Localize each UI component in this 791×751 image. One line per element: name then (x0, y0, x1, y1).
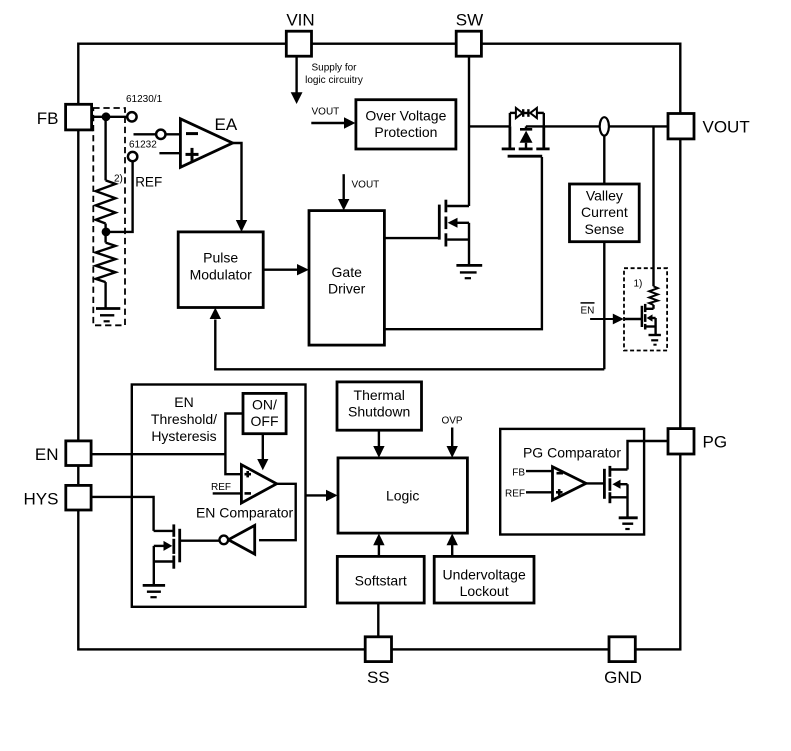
svg-text:Softstart: Softstart (355, 572, 407, 588)
ground PG FET (619, 518, 638, 529)
svg-text:EA: EA (215, 115, 238, 134)
svg-text:VOUT: VOUT (352, 180, 380, 191)
transistor power NMOS Q1 (385, 200, 470, 266)
wire output rail to VOUT pin (526, 125, 668, 127)
svg-text:logic circuitry: logic circuitry (305, 75, 363, 86)
wire R1 to tap (104, 224, 106, 243)
block Thermal Shutdown (337, 382, 422, 430)
wire REF to EN comparator (213, 492, 242, 494)
pin HYS (66, 485, 91, 510)
wire FB to PG comparator (526, 470, 553, 472)
wire R2 to ground (104, 282, 106, 308)
label SW (456, 11, 483, 30)
wire VOUT supply into gate driver (343, 174, 345, 199)
wire inverter to HYS FET gate (181, 540, 220, 542)
arrowhead into pulse modulator (236, 220, 247, 232)
label supply for logic circuitry (305, 63, 363, 87)
svg-text:EN: EN (174, 394, 193, 410)
svg-text:Supply for: Supply for (311, 63, 357, 74)
block Gate Driver (309, 211, 384, 346)
svg-text:Gate: Gate (332, 264, 363, 280)
switch contact 61232 (128, 152, 137, 161)
transistor HYS pulldown FET (154, 524, 180, 585)
op-amp EA (180, 119, 232, 168)
block ON/OFF (243, 393, 286, 433)
back-to-back diodes above rectifier (510, 108, 544, 127)
label PG (703, 432, 728, 451)
wire current feedback bottom rail (215, 320, 604, 370)
wire thermal shutdown to logic (373, 430, 384, 458)
svg-text:PG Comparator: PG Comparator (523, 445, 621, 461)
label GND (604, 668, 642, 687)
svg-text:HYS: HYS (24, 490, 59, 509)
wire PG FET drain to PG pin (628, 441, 669, 470)
op-amp PG comparator (553, 467, 587, 500)
svg-text:REF: REF (211, 482, 231, 493)
svg-text:REF: REF (505, 488, 525, 499)
wire HYS pin into block (91, 497, 154, 531)
svg-text:Over Voltage: Over Voltage (365, 107, 446, 123)
block Undervoltage Lockout (434, 556, 534, 603)
wire EA output to pulse modulator (232, 143, 242, 221)
label FB PG comparator (512, 467, 525, 478)
pin SW (456, 31, 481, 56)
wire EN pin into block (91, 453, 225, 455)
svg-text:ON/: ON/ (252, 397, 277, 413)
wire SW to power NMOS drain (468, 56, 470, 206)
svg-text:Lockout: Lockout (460, 583, 509, 599)
wire EN bar to discharge gate (590, 314, 642, 325)
svg-text:Current: Current (581, 204, 628, 220)
svg-text:Logic: Logic (386, 487, 419, 503)
arrowhead into pulse modulator bottom (210, 308, 221, 319)
svg-text:FB: FB (37, 109, 59, 128)
svg-text:Thermal: Thermal (354, 387, 405, 403)
wire VOUT rail to discharge resistor (652, 126, 654, 286)
svg-text:61230/1: 61230/1 (126, 94, 163, 105)
svg-text:Protection: Protection (374, 124, 437, 140)
current sense element on rail (600, 117, 609, 135)
dashed box internal divider (93, 108, 125, 325)
pin VIN stem arrow to logic supply (291, 56, 303, 104)
block Over Voltage Protection (356, 100, 456, 149)
resistor R1 (96, 180, 116, 223)
wire FB to switch 61230/1 (92, 116, 128, 118)
ground HYS FET (143, 585, 165, 597)
svg-text:Modulator: Modulator (190, 266, 253, 282)
wire OVP to logic (447, 428, 458, 458)
label VOUT into OVP (312, 107, 340, 118)
wire UVLO to logic (447, 534, 458, 557)
block Valley Current Sense (570, 184, 640, 242)
switch contact on EA inverting input (156, 130, 165, 139)
block EN Threshold / Hysteresis container (132, 385, 306, 607)
label HYS (24, 490, 59, 509)
label REF EN comparator (211, 482, 231, 493)
node FB divider junction (102, 112, 111, 121)
block Softstart (337, 556, 424, 603)
svg-text:REF: REF (135, 174, 162, 189)
body diode of rectifier (520, 126, 533, 147)
wire REF to PG comparator (526, 491, 553, 493)
wire VOUT to OVP (311, 117, 355, 128)
svg-text:Driver: Driver (328, 281, 366, 297)
wire divider top (104, 117, 106, 181)
pin EN (66, 441, 91, 466)
wire softstart to SS pin (377, 603, 379, 637)
label EN bar (581, 303, 595, 317)
label EN (35, 445, 59, 464)
ground divider (96, 309, 120, 322)
svg-text:Valley: Valley (586, 187, 623, 203)
chip outer boundary (78, 44, 680, 650)
label VIN (286, 11, 314, 30)
block Logic (338, 458, 467, 533)
ground discharge FET (649, 335, 661, 345)
dashed box discharge circuit (624, 268, 667, 350)
svg-text:61232: 61232 (129, 140, 157, 151)
wire valley current sense vertical (603, 136, 605, 370)
label VOUT (703, 117, 750, 136)
label VOUT gate driver supply (352, 180, 380, 191)
resistor discharge (649, 286, 658, 305)
svg-text:Hysteresis: Hysteresis (151, 428, 216, 444)
label REF PG comparator (505, 488, 525, 499)
wire EN comparator output to inverter (259, 484, 296, 540)
wire output rail SW side (469, 125, 510, 127)
resistor R2 (96, 243, 116, 283)
svg-text:GND: GND (604, 668, 642, 687)
wire EA inverting input (134, 133, 181, 135)
pin FB (66, 104, 92, 130)
svg-text:VOUT: VOUT (703, 117, 750, 136)
arrowhead into gate driver (297, 264, 309, 275)
label REF (135, 174, 162, 189)
wire rectifier gate to gate driver (385, 157, 542, 329)
inverter EN (220, 525, 255, 554)
svg-text:1): 1) (634, 279, 643, 290)
label OVP (441, 415, 462, 426)
svg-text:Pulse: Pulse (203, 250, 238, 266)
transistor discharge FET (642, 304, 656, 335)
svg-text:VIN: VIN (286, 11, 314, 30)
label SS (367, 668, 390, 687)
svg-text:EN Comparator: EN Comparator (196, 504, 294, 520)
label FB (37, 109, 59, 128)
wire ON/OFF to comparator arrow (257, 434, 268, 471)
wire EA non-inverting input (159, 152, 180, 154)
transistor PG FET (604, 466, 627, 518)
label EN Comparator (196, 504, 294, 520)
pin PG (668, 429, 694, 454)
svg-text:OFF: OFF (251, 413, 279, 429)
block PG Comparator container (500, 429, 644, 535)
svg-text:Undervoltage: Undervoltage (442, 566, 525, 582)
svg-text:Sense: Sense (585, 221, 625, 237)
svg-text:OVP: OVP (441, 415, 462, 426)
svg-text:VOUT: VOUT (312, 107, 340, 118)
label 2) (114, 174, 123, 185)
wire PG comparator output to PG FET gate (586, 482, 603, 484)
pin SS (365, 637, 391, 662)
svg-text:EN: EN (581, 306, 595, 317)
wire EN branch (225, 414, 243, 475)
wire pulse modulator to gate driver (263, 269, 297, 271)
wire 61232 to divider tap (106, 161, 133, 232)
svg-text:Threshold/: Threshold/ (151, 411, 217, 427)
op-amp EN comparator (241, 465, 276, 503)
svg-text:Shutdown: Shutdown (348, 404, 410, 420)
ground power NMOS (456, 265, 482, 278)
svg-text:SS: SS (367, 668, 390, 687)
svg-text:FB: FB (512, 467, 525, 478)
wire softstart to logic (373, 534, 384, 557)
pin VIN (286, 31, 311, 56)
arrowhead into gate driver top (338, 199, 349, 211)
label EA (215, 115, 238, 134)
switch contact 61230/1 (127, 112, 136, 121)
label 61232 (129, 140, 157, 151)
block Pulse Modulator (178, 232, 263, 308)
wire EN block output to logic (306, 490, 338, 501)
pin GND (609, 637, 635, 662)
svg-text:SW: SW (456, 11, 483, 30)
svg-text:PG: PG (703, 432, 728, 451)
svg-text:EN: EN (35, 445, 59, 464)
label 1) (634, 279, 643, 290)
svg-text:2): 2) (114, 174, 123, 185)
node divider tap (102, 228, 111, 237)
transistor rectifier switch (502, 126, 550, 156)
label 61230/1 (126, 94, 163, 105)
pin VOUT (668, 114, 694, 139)
